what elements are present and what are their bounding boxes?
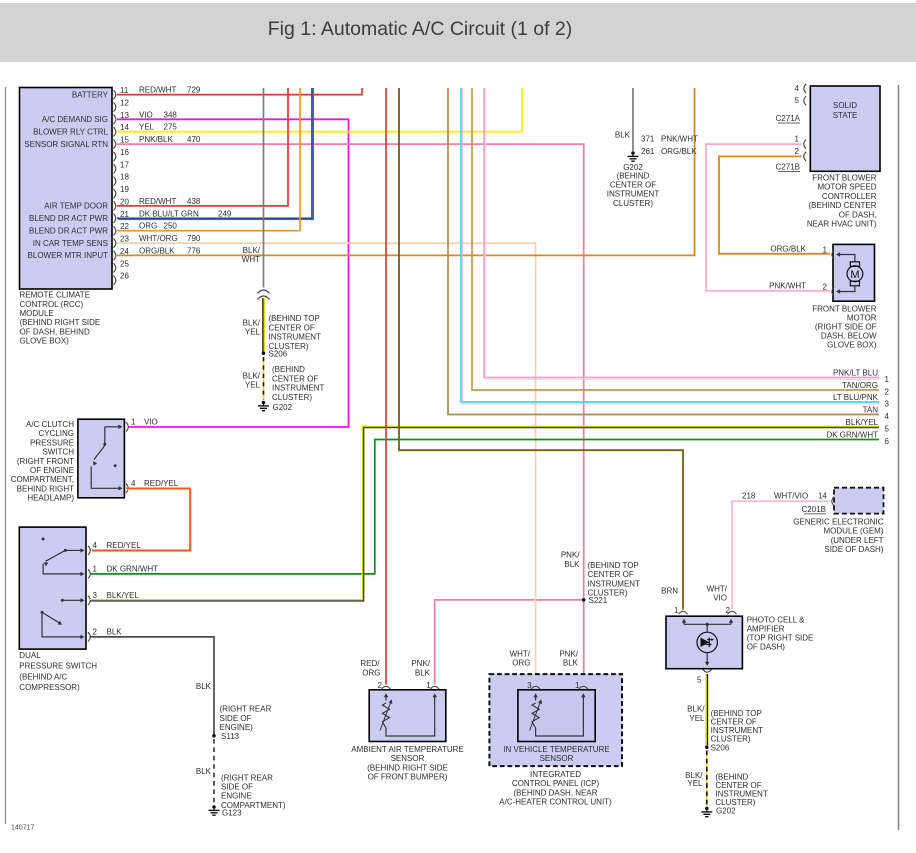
svg-text:RED/: RED/ xyxy=(360,659,380,668)
photo cell pin 1 xyxy=(674,606,687,615)
svg-text:(BEHIND DASH, NEAR: (BEHIND DASH, NEAR xyxy=(513,788,597,797)
svg-text:AIR TEMP DOOR: AIR TEMP DOOR xyxy=(44,202,108,211)
A/C clutch switch pin 4 xyxy=(126,479,179,493)
svg-text:VIO: VIO xyxy=(144,417,158,426)
svg-text:1: 1 xyxy=(575,681,580,690)
svg-text:DK GRN/WHT: DK GRN/WHT xyxy=(826,430,878,439)
svg-text:BLK: BLK xyxy=(563,659,579,668)
svg-text:BLK: BLK xyxy=(196,767,212,776)
svg-text:MOTOR SPEED: MOTOR SPEED xyxy=(818,183,877,192)
svg-text:S221: S221 xyxy=(589,596,608,605)
svg-text:(RIGHT REAR: (RIGHT REAR xyxy=(220,705,272,714)
wire PNK/BLK 470 (pin 15 to splice S221 and temp sensors) xyxy=(117,135,584,684)
svg-text:ENGINE: ENGINE xyxy=(221,792,252,801)
svg-text:19: 19 xyxy=(120,185,129,194)
svg-text:DASH, BELOW: DASH, BELOW xyxy=(821,331,877,340)
splice S206 (right) xyxy=(705,744,730,753)
svg-text:OF FRONT BUMPER): OF FRONT BUMPER) xyxy=(368,773,448,782)
svg-text:3: 3 xyxy=(885,400,890,409)
svg-text:SENSOR: SENSOR xyxy=(391,754,425,763)
svg-text:2: 2 xyxy=(795,147,800,156)
wire LT BLU/PNK (from top to right edge pin 3) xyxy=(461,88,879,404)
svg-text:CENTER OF: CENTER OF xyxy=(610,181,656,190)
right page border xyxy=(898,85,900,830)
svg-text:MODULE: MODULE xyxy=(20,309,54,318)
svg-text:SENSOR SIGNAL RTN: SENSOR SIGNAL RTN xyxy=(24,140,108,149)
RCC module label xyxy=(20,291,101,346)
ICP module (dashed boundary) xyxy=(489,674,622,766)
svg-text:NEAR HVAC UNIT): NEAR HVAC UNIT) xyxy=(807,220,877,229)
svg-text:(UNDER LEFT: (UNDER LEFT xyxy=(831,536,884,545)
svg-text:371: 371 xyxy=(641,135,655,144)
svg-text:6: 6 xyxy=(885,437,890,446)
svg-text:ORG/BLK: ORG/BLK xyxy=(139,246,175,255)
svg-text:BLK/: BLK/ xyxy=(243,246,261,255)
wire BLK/WHT (from top to inline connector) xyxy=(242,88,264,288)
dual switch pin 4 xyxy=(88,541,98,555)
dual switch pin 3 xyxy=(88,591,140,605)
svg-text:MOTOR: MOTOR xyxy=(847,313,877,322)
svg-text:CONTROL PANEL (ICP): CONTROL PANEL (ICP) xyxy=(512,779,600,788)
svg-text:TAN/ORG: TAN/ORG xyxy=(842,381,878,390)
note behind top center of instrument cluster (right S206) xyxy=(711,709,764,744)
svg-text:4: 4 xyxy=(885,412,890,421)
svg-text:2: 2 xyxy=(726,606,731,615)
svg-text:YEL: YEL xyxy=(245,381,261,390)
svg-text:140717: 140717 xyxy=(11,825,34,832)
note behind top center of instrument cluster (S221) xyxy=(588,561,641,598)
svg-text:CLUSTER): CLUSTER) xyxy=(588,589,628,598)
svg-text:(RIGHT FRONT: (RIGHT FRONT xyxy=(17,457,74,466)
wire BLK/YEL (connector to splice S206) xyxy=(243,298,265,353)
ground G202 (left) xyxy=(258,401,293,412)
inline connector (double chevron) xyxy=(258,290,270,300)
svg-text:CONTROL (RCC): CONTROL (RCC) xyxy=(20,300,84,309)
svg-text:BLK: BLK xyxy=(415,668,431,677)
svg-text:CONTROLLER: CONTROLLER xyxy=(822,192,877,201)
svg-text:BLK: BLK xyxy=(107,627,123,636)
wire BLK/YEL (dual switch pin 3 to right edge pin 5) xyxy=(90,426,879,601)
svg-text:PNK/WHT: PNK/WHT xyxy=(769,282,806,291)
svg-text:WHT/VIO: WHT/VIO xyxy=(774,492,808,501)
svg-text:INSTRUMENT: INSTRUMENT xyxy=(269,333,322,342)
svg-text:(BEHIND A/C: (BEHIND A/C xyxy=(19,672,67,681)
ICP label xyxy=(499,770,612,807)
wire BRN (from top to photo cell pin 1) xyxy=(399,88,683,610)
svg-text:MODULE (GEM): MODULE (GEM) xyxy=(824,527,884,536)
svg-text:4: 4 xyxy=(795,84,800,93)
note behind center of instrument cluster (center G202) xyxy=(607,171,660,208)
wire RED/WHT 438 (pin 20, exits top) xyxy=(117,88,288,206)
note behind center of instrument cluster (left G202) xyxy=(272,365,325,402)
wire VIO 348 (pin 13 to A/C clutch switch pin 1) xyxy=(117,110,349,427)
svg-text:PRESSURE SWITCH: PRESSURE SWITCH xyxy=(19,662,97,671)
svg-text:BLK/YEL: BLK/YEL xyxy=(107,591,140,600)
svg-text:2: 2 xyxy=(823,282,828,291)
svg-text:YEL: YEL xyxy=(687,779,703,788)
A/C clutch switch label xyxy=(11,420,75,503)
diagram id 140717 xyxy=(11,825,34,832)
svg-text:GENERIC ELECTRONIC: GENERIC ELECTRONIC xyxy=(793,518,883,527)
blower motor pin 1 xyxy=(823,245,835,259)
svg-text:BLK/: BLK/ xyxy=(243,371,261,380)
svg-text:(BEHIND: (BEHIND xyxy=(617,171,650,180)
wire DK GRN/WHT (dual switch pin 1 to right edge pin 6) xyxy=(90,440,879,574)
svg-text:COMPARTMENT): COMPARTMENT) xyxy=(221,801,286,810)
wire BLK/YEL (photo cell pin 5 to splice S206 right) xyxy=(687,674,707,746)
svg-text:BLEND DR ACT PWR: BLEND DR ACT PWR xyxy=(29,227,108,236)
svg-text:VIO: VIO xyxy=(713,594,727,603)
splice S206 (left) xyxy=(262,349,288,358)
svg-text:1: 1 xyxy=(795,135,800,144)
wire TAN (from top to right edge pin 4) xyxy=(448,88,879,415)
wire WHT/ORG 790 (pin 23 to ICP in-vehicle temp sensor pin 3) xyxy=(117,234,536,684)
GEM label xyxy=(793,518,884,555)
svg-text:REMOTE CLIMATE: REMOTE CLIMATE xyxy=(20,291,91,300)
svg-text:C271A: C271A xyxy=(776,114,801,123)
note behind top center of instrument cluster (left S206) xyxy=(269,314,322,351)
blower motor label xyxy=(812,304,877,349)
svg-text:17: 17 xyxy=(120,160,129,169)
controller connector C271A pin 4 xyxy=(795,84,807,93)
svg-text:CLUSTER): CLUSTER) xyxy=(711,735,751,744)
svg-text:261: 261 xyxy=(641,147,655,156)
svg-text:249: 249 xyxy=(218,209,232,218)
svg-text:1: 1 xyxy=(426,681,431,690)
svg-text:12: 12 xyxy=(120,99,129,108)
svg-text:ORG/BLK: ORG/BLK xyxy=(661,147,697,156)
pressure switch S2 (dual pressure) xyxy=(19,527,86,649)
wire BLK/YEL dashed (S206 to ground G202 left) xyxy=(243,357,264,400)
svg-text:14: 14 xyxy=(818,492,827,501)
svg-text:BLK: BLK xyxy=(564,560,580,569)
svg-text:ORG: ORG xyxy=(139,222,157,231)
svg-text:470: 470 xyxy=(187,135,201,144)
svg-text:5: 5 xyxy=(885,425,890,434)
svg-text:3: 3 xyxy=(93,591,98,600)
svg-text:BLK/: BLK/ xyxy=(243,318,261,327)
svg-text:16: 16 xyxy=(120,148,129,157)
svg-text:SIDE OF DASH): SIDE OF DASH) xyxy=(824,545,883,554)
svg-text:5: 5 xyxy=(795,96,800,105)
svg-text:M: M xyxy=(850,269,859,281)
wire PNK/WHT 371 (C271B pin 1 to blower motor pin 2) xyxy=(706,144,830,291)
svg-text:CYCLING: CYCLING xyxy=(38,429,74,438)
wire BLK dashed (S113 to ground G123) xyxy=(196,739,214,805)
svg-text:776: 776 xyxy=(187,246,201,255)
GEM module U4 (dashed) xyxy=(834,488,884,514)
svg-text:(BEHIND CENTER: (BEHIND CENTER xyxy=(808,201,876,210)
photo cell & amplifier U2 xyxy=(666,616,742,669)
svg-text:CLUSTER): CLUSTER) xyxy=(613,199,653,208)
svg-text:WHT/: WHT/ xyxy=(510,649,531,658)
svg-text:YEL: YEL xyxy=(245,328,261,337)
svg-text:PNK/WHT: PNK/WHT xyxy=(661,135,698,144)
svg-text:INSTRUMENT: INSTRUMENT xyxy=(588,579,641,588)
wire RED/WHT 729 (pin 11, exits top) xyxy=(117,86,362,95)
svg-text:1: 1 xyxy=(131,417,136,426)
blower motor wire labels xyxy=(769,245,807,291)
RCC module U1 (remote climate control) xyxy=(20,86,130,289)
svg-text:SIDE OF: SIDE OF xyxy=(220,714,252,723)
in vehicle sensor pin 3 xyxy=(510,649,541,689)
svg-text:3: 3 xyxy=(527,681,532,690)
svg-text:A/C CLUTCH: A/C CLUTCH xyxy=(26,420,74,429)
svg-text:IN CAR TEMP SENS: IN CAR TEMP SENS xyxy=(33,239,108,248)
svg-text:(BEHIND TOP: (BEHIND TOP xyxy=(269,314,320,323)
svg-text:4: 4 xyxy=(93,541,98,550)
svg-text:GLOVE BOX): GLOVE BOX) xyxy=(20,337,70,346)
svg-text:DK GRN/WHT: DK GRN/WHT xyxy=(107,564,159,573)
ground G202 (center) xyxy=(623,151,643,172)
svg-text:BLK: BLK xyxy=(615,131,631,140)
dual switch pin 1 xyxy=(88,564,158,578)
note behind center of instrument cluster (right G202) xyxy=(715,772,768,807)
wire DK BLU/LT GRN 249 (pin 21, exits top) xyxy=(117,88,314,220)
svg-text:SIDE OF: SIDE OF xyxy=(221,783,253,792)
svg-text:18: 18 xyxy=(120,173,129,182)
svg-text:WHT: WHT xyxy=(242,255,260,264)
wire TAN/ORG (from top to right edge pin 2) xyxy=(472,88,879,390)
svg-text:CLUSTER): CLUSTER) xyxy=(269,342,309,351)
wire WHT/VIO 218 (GEM pin 14 to photo cell pin 2) xyxy=(707,501,830,609)
front blower motor speed controller U3 (solid state) xyxy=(810,86,880,171)
svg-text:348: 348 xyxy=(164,110,178,119)
svg-text:25: 25 xyxy=(120,259,129,268)
ground G202 (right) xyxy=(701,807,736,817)
svg-text:BLEND DR ACT PWR: BLEND DR ACT PWR xyxy=(29,214,108,223)
svg-text:FRONT BLOWER: FRONT BLOWER xyxy=(812,174,877,183)
wire BLK (dual switch pin 2 to splice S113) xyxy=(90,637,214,735)
thermistor RT1 (ambient air temperature sensor) xyxy=(369,690,446,742)
splice S113 xyxy=(212,732,239,741)
ambient sensor pin 1 xyxy=(411,659,439,690)
in vehicle sensor pin 1 xyxy=(559,649,588,689)
svg-text:(BEHIND: (BEHIND xyxy=(272,365,305,374)
blower motor pin 2 xyxy=(823,282,835,296)
svg-text:YEL: YEL xyxy=(689,714,705,723)
note right rear side of engine compartment xyxy=(221,773,286,810)
svg-text:1: 1 xyxy=(93,564,98,573)
svg-text:COMPARTMENT,: COMPARTMENT, xyxy=(11,475,74,484)
svg-text:STATE: STATE xyxy=(833,111,858,120)
svg-text:PRESSURE: PRESSURE xyxy=(30,438,74,447)
wire YEL 275 (pin 14, exits top) xyxy=(117,88,522,132)
svg-text:26: 26 xyxy=(120,272,129,281)
svg-text:(BEHIND RIGHT SIDE: (BEHIND RIGHT SIDE xyxy=(20,318,101,327)
controller connector C271A pin 5 xyxy=(795,96,807,105)
dual switch pin 2 xyxy=(88,627,122,641)
svg-text:AMBIENT AIR TEMPERATURE: AMBIENT AIR TEMPERATURE xyxy=(351,745,463,754)
svg-text:HEADLAMP): HEADLAMP) xyxy=(27,494,74,503)
svg-text:OF DASH,: OF DASH, xyxy=(839,210,877,219)
svg-text:1: 1 xyxy=(674,606,679,615)
svg-text:RED/WHT: RED/WHT xyxy=(139,197,176,206)
svg-text:IN VEHICLE TEMPERATURE: IN VEHICLE TEMPERATURE xyxy=(503,745,609,754)
svg-text:5: 5 xyxy=(697,676,702,685)
photo cell pin 5 xyxy=(697,669,712,684)
svg-text:(BEHIND RIGHT SIDE: (BEHIND RIGHT SIDE xyxy=(367,763,448,772)
ground G123 xyxy=(209,805,243,817)
svg-text:(RIGHT SIDE OF: (RIGHT SIDE OF xyxy=(815,322,877,331)
svg-text:WHT/: WHT/ xyxy=(707,585,728,594)
wire ORG 250 (pin 22, exits top) xyxy=(117,88,300,231)
svg-text:CENTER OF: CENTER OF xyxy=(588,570,634,579)
svg-text:BLOWER RLY CTRL: BLOWER RLY CTRL xyxy=(33,128,108,137)
svg-text:DK BLU/LT GRN: DK BLU/LT GRN xyxy=(139,209,199,218)
connector label C271A xyxy=(776,114,801,123)
svg-text:OF DASH): OF DASH) xyxy=(747,643,786,652)
svg-text:RED/WHT: RED/WHT xyxy=(139,86,176,95)
wire ORG/BLK 776 (pin 24, up at x694, exits top) xyxy=(117,88,695,255)
svg-text:PNK/BLK: PNK/BLK xyxy=(139,135,173,144)
svg-text:(TOP RIGHT SIDE: (TOP RIGHT SIDE xyxy=(747,634,814,643)
svg-text:BLK/: BLK/ xyxy=(687,705,705,714)
svg-text:G202: G202 xyxy=(716,807,736,816)
svg-text:YEL: YEL xyxy=(139,123,155,132)
svg-text:790: 790 xyxy=(187,234,201,243)
splice S221 xyxy=(561,551,608,606)
ambient sensor pin 2 xyxy=(360,659,390,690)
connector label C201B xyxy=(802,505,826,514)
wire BLK/YEL dashed (S206 to ground G202 right) xyxy=(685,751,707,807)
svg-text:S113: S113 xyxy=(221,732,240,741)
svg-text:BLOWER MTR INPUT: BLOWER MTR INPUT xyxy=(28,251,109,260)
svg-text:2: 2 xyxy=(378,681,383,690)
svg-text:INTEGRATED: INTEGRATED xyxy=(530,770,581,779)
svg-text:2: 2 xyxy=(885,388,890,397)
svg-text:BEHIND RIGHT: BEHIND RIGHT xyxy=(17,484,74,493)
svg-text:2: 2 xyxy=(93,627,98,636)
svg-text:4: 4 xyxy=(131,479,136,488)
svg-text:A/C DEMAND SIG: A/C DEMAND SIG xyxy=(42,115,108,124)
motor M1 (front blower motor) xyxy=(833,244,875,301)
svg-text:ORG: ORG xyxy=(362,668,380,677)
wire RED/ORG (from top to ambient sensor pin 2) xyxy=(385,88,387,685)
A/C clutch switch pin 1 xyxy=(126,417,158,431)
svg-text:PNK/: PNK/ xyxy=(561,551,580,560)
svg-text:BLK: BLK xyxy=(196,682,212,691)
svg-text:G202: G202 xyxy=(273,403,293,412)
svg-text:ORG: ORG xyxy=(512,659,530,668)
svg-text:COMPRESSOR): COMPRESSOR) xyxy=(19,683,80,692)
wire BLK (from top to ground G202 center) xyxy=(615,88,633,151)
svg-text:438: 438 xyxy=(187,197,201,206)
svg-text:RED/YEL: RED/YEL xyxy=(144,479,179,488)
svg-text:TAN: TAN xyxy=(863,405,879,414)
svg-text:CENTER OF: CENTER OF xyxy=(269,323,315,332)
svg-text:BATTERY: BATTERY xyxy=(72,90,109,99)
connector label C271B xyxy=(776,162,800,171)
wire ORG/BLK 261 (C271B pin 2 to blower motor pin 1) xyxy=(719,156,830,253)
svg-text:OF DASH, BEHIND: OF DASH, BEHIND xyxy=(20,327,90,336)
left page border xyxy=(5,87,7,824)
svg-text:VIO: VIO xyxy=(139,110,153,119)
svg-text:(RIGHT REAR: (RIGHT REAR xyxy=(221,773,273,782)
svg-text:PHOTO CELL &: PHOTO CELL & xyxy=(747,616,805,625)
svg-text:BLK/YEL: BLK/YEL xyxy=(846,418,879,427)
svg-text:ENGINE): ENGINE) xyxy=(220,723,254,732)
title bar xyxy=(0,3,916,62)
svg-text:PNK/: PNK/ xyxy=(411,659,430,668)
svg-text:1: 1 xyxy=(823,245,828,254)
svg-text:WHT/ORG: WHT/ORG xyxy=(139,234,178,243)
svg-text:INSTRUMENT: INSTRUMENT xyxy=(272,384,325,393)
svg-text:SENSOR: SENSOR xyxy=(540,754,574,763)
wire RED/YEL (clutch switch pin 4 to dual pressure switch pin 4) xyxy=(92,488,191,551)
svg-text:Fig 1: Automatic A/C Circuit (: Fig 1: Automatic A/C Circuit (1 of 2) xyxy=(268,18,573,40)
svg-text:C201B: C201B xyxy=(802,505,826,514)
svg-text:OF ENGINE: OF ENGINE xyxy=(30,466,74,475)
svg-text:FRONT BLOWER: FRONT BLOWER xyxy=(812,304,877,313)
svg-text:DUAL: DUAL xyxy=(19,651,41,660)
svg-text:A/C-HEATER CONTROL UNIT): A/C-HEATER CONTROL UNIT) xyxy=(499,798,612,807)
svg-text:275: 275 xyxy=(164,123,178,132)
wire PNK/LT BLU (from top to right edge pin 1) xyxy=(484,88,879,379)
svg-text:CLUSTER): CLUSTER) xyxy=(715,798,755,807)
svg-text:PNK/: PNK/ xyxy=(559,649,578,658)
svg-text:ORG/BLK: ORG/BLK xyxy=(770,245,806,254)
controller connector C271B pin 1 xyxy=(641,135,806,149)
svg-text:729: 729 xyxy=(187,86,201,95)
svg-text:CENTER OF: CENTER OF xyxy=(272,374,318,383)
svg-text:BRN: BRN xyxy=(661,587,678,596)
svg-text:AMPIFIER: AMPIFIER xyxy=(747,625,785,634)
svg-text:GLOVE BOX): GLOVE BOX) xyxy=(827,340,877,349)
svg-text:RED/YEL: RED/YEL xyxy=(107,541,142,550)
thermistor RT2 (in vehicle temperature sensor) xyxy=(518,690,595,742)
right edge pin labels 1-6 xyxy=(826,368,889,446)
in vehicle sensor label xyxy=(503,745,609,763)
svg-text:250: 250 xyxy=(164,222,178,231)
svg-text:S206: S206 xyxy=(711,744,730,753)
svg-text:INSTRUMENT: INSTRUMENT xyxy=(607,190,660,199)
svg-text:PNK/LT BLU: PNK/LT BLU xyxy=(833,368,878,377)
svg-text:218: 218 xyxy=(742,492,756,501)
photo cell pin 2 xyxy=(726,606,737,615)
note right rear side of engine xyxy=(220,705,272,732)
pressure switch S1 (A/C clutch cycling) xyxy=(78,419,125,498)
svg-text:LT BLU/PNK: LT BLU/PNK xyxy=(833,393,879,402)
svg-text:CLUSTER): CLUSTER) xyxy=(272,393,312,402)
GEM connector C201B pin 14 xyxy=(742,492,834,506)
photo cell label xyxy=(747,616,814,652)
svg-text:SOLID: SOLID xyxy=(833,101,857,110)
svg-text:1: 1 xyxy=(885,375,890,384)
svg-text:SWITCH: SWITCH xyxy=(42,448,74,457)
dual pressure switch label xyxy=(19,651,97,692)
controller connector C271B pin 2 xyxy=(641,147,806,161)
svg-text:C271B: C271B xyxy=(776,162,800,171)
controller label xyxy=(807,174,877,229)
svg-text:(BEHIND TOP: (BEHIND TOP xyxy=(588,561,639,570)
ambient sensor label xyxy=(351,745,463,782)
